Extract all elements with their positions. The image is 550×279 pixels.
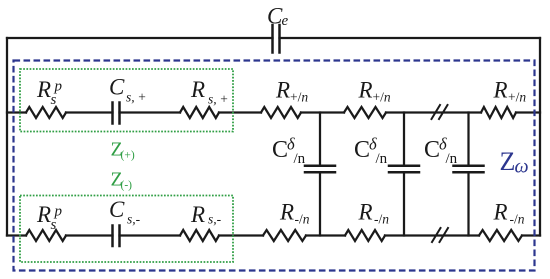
svg-text:R: R	[275, 78, 290, 103]
svg-text:s,-: s,-	[208, 212, 222, 227]
svg-text:s, +: s, +	[126, 90, 146, 105]
svg-text:R: R	[36, 202, 51, 227]
svg-text:C: C	[109, 75, 125, 100]
svg-text:s,-: s,-	[127, 212, 141, 227]
svg-text:/n: /n	[376, 151, 388, 167]
svg-text:R: R	[36, 77, 51, 102]
svg-text:C: C	[424, 137, 440, 163]
svg-text:R: R	[358, 200, 373, 225]
svg-text:C: C	[272, 137, 288, 163]
svg-text:(+): (+)	[121, 150, 135, 162]
svg-text:R: R	[190, 202, 205, 227]
svg-text:s, +: s, +	[208, 92, 228, 107]
svg-text:+/n: +/n	[373, 90, 391, 105]
svg-text:e: e	[282, 13, 289, 29]
svg-text:R: R	[358, 78, 373, 103]
svg-text:+/n: +/n	[508, 90, 526, 105]
svg-text:ω: ω	[515, 156, 529, 178]
svg-text:R: R	[190, 77, 205, 102]
svg-text:C: C	[354, 137, 370, 163]
svg-text:R: R	[493, 78, 508, 103]
svg-text:s: s	[51, 92, 57, 108]
svg-text:-/n: -/n	[295, 212, 310, 227]
svg-text:(-): (-)	[121, 180, 133, 192]
svg-text:R: R	[493, 200, 508, 225]
svg-text:R: R	[279, 200, 294, 225]
svg-text:Z: Z	[500, 147, 516, 176]
svg-text:/n: /n	[294, 151, 306, 167]
svg-text:s: s	[51, 217, 57, 233]
svg-text:/n: /n	[446, 151, 458, 167]
svg-text:-/n: -/n	[374, 212, 389, 227]
svg-text:+/n: +/n	[290, 90, 308, 105]
svg-text:-/n: -/n	[510, 212, 525, 227]
svg-text:C: C	[109, 197, 125, 222]
